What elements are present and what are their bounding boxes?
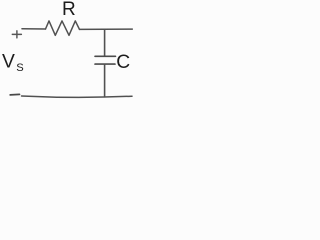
- minus terminal of source: [10, 93, 19, 96]
- svg-text:C: C: [116, 52, 130, 73]
- wire capacitor bottom lead: [104, 64, 106, 97]
- svg-text:R: R: [62, 0, 76, 20]
- capacitor C top plate: [95, 55, 116, 57]
- svg-text:V: V: [2, 51, 15, 72]
- resistor R: [46, 21, 80, 35]
- capacitor C bottom plate: [95, 63, 115, 65]
- wire from resistor to top-right stub end: [80, 28, 133, 30]
- wire from plus terminal to resistor: [22, 28, 46, 30]
- svg-text:S: S: [16, 62, 23, 74]
- plus terminal of source: [12, 31, 21, 38]
- bottom rail wire: [22, 96, 133, 97]
- wire capacitor top lead from node: [104, 29, 106, 56]
